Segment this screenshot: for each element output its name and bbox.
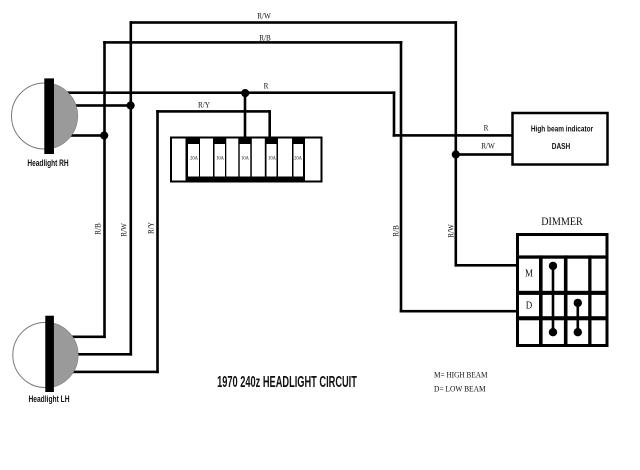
label R wire — [263, 81, 268, 90]
dimmer vertical divider 1 — [539, 255, 543, 344]
label R/B top wire — [259, 34, 271, 43]
fuse 20A slot 5 — [294, 144, 304, 177]
junction dot R/W vertical to DASH branch — [452, 150, 460, 158]
wire R branch to fusebox vertical — [244, 91, 247, 141]
label DASH — [551, 141, 570, 151]
fuse value 20A — [190, 156, 198, 161]
wire R/Y left vertical — [156, 110, 159, 373]
fuse 10A slot 4 — [267, 144, 277, 177]
label R/W at DASH — [481, 141, 495, 150]
label R/B left vertical — [93, 223, 102, 235]
fuse value 10A — [216, 156, 224, 161]
wire R/W to dimmer M horizontal — [455, 264, 518, 267]
box high beam indicator DASH — [513, 113, 608, 165]
wire R to DASH horizontal — [393, 134, 515, 137]
wire R vertical drop — [393, 91, 396, 136]
fuse value 20A — [294, 156, 302, 161]
fuse 10A slot 2 — [215, 144, 226, 177]
fuse slot tall 1 — [200, 139, 213, 177]
wire headlight RH lower horizontal — [60, 134, 106, 137]
wire R/W left vertical — [130, 21, 133, 355]
junction dot headlight RH lower to R/B vertical — [100, 131, 108, 139]
headlight RH lamp symbol — [12, 78, 78, 154]
wire R/Y vertical into fusebox — [268, 110, 271, 141]
wire headlight LH top horizontal — [61, 336, 106, 339]
legend D= LOW BEAM — [434, 385, 486, 394]
label R/W left vertical — [119, 223, 128, 237]
label D terminal — [526, 300, 533, 311]
fusebox body — [170, 137, 323, 183]
wire R/B left vertical — [103, 41, 106, 338]
dimmer divider below M row — [519, 291, 606, 295]
wire R/B to dimmer D horizontal — [400, 310, 518, 313]
wire R/B right vertical — [400, 41, 403, 312]
fuse 20A slot 1 — [188, 144, 199, 177]
dimmer contact bar M column — [549, 262, 557, 337]
label Headlight RH — [27, 158, 68, 168]
label High beam indicator — [531, 125, 593, 134]
label DIMMER — [542, 216, 584, 228]
fuse value 10A — [241, 156, 249, 161]
fuse slot tall 3 — [252, 139, 265, 177]
dimmer vertical divider 2 — [564, 255, 568, 344]
fuse slot tall 2 — [226, 139, 238, 177]
dimmer divider below D row — [519, 316, 606, 320]
dimmer switch box — [516, 233, 609, 347]
dimmer divider below header — [519, 255, 606, 258]
label R at DASH — [483, 124, 488, 133]
wire headlight RH middle horizontal — [60, 104, 132, 107]
dimmer vertical divider 3 — [588, 255, 591, 344]
wire R/W top horizontal — [130, 21, 458, 24]
junction dot headlight RH middle to R/W vertical — [127, 101, 135, 109]
wire R main horizontal from headlight RH — [60, 91, 395, 94]
fuse value 10A — [268, 156, 276, 161]
headlight LH lamp symbol — [13, 316, 78, 392]
label R/Y wire — [198, 100, 210, 109]
wire R/B top horizontal — [103, 41, 402, 44]
junction dot on R wire at fuse branch — [241, 89, 249, 97]
legend M= HIGH BEAM — [434, 370, 487, 379]
label R/W right vertical — [446, 224, 455, 238]
label R/B right vertical — [391, 226, 400, 238]
title 1970 240z HEADLIGHT CIRCUIT — [217, 374, 357, 392]
dimmer contact bar D column — [574, 299, 582, 337]
wire R/W branch to DASH horizontal — [455, 153, 514, 156]
fuse slot tall 4 — [278, 139, 292, 177]
wire headlight LH middle horizontal — [61, 353, 132, 356]
fuse 10A slot 3 — [240, 144, 251, 177]
wire headlight LH bottom horizontal — [61, 371, 159, 374]
wire R/W right vertical — [455, 21, 458, 266]
label Headlight LH — [28, 394, 69, 404]
label R/Y left vertical — [146, 221, 155, 233]
label R/W top wire — [257, 12, 271, 21]
label M terminal — [525, 269, 533, 280]
wire R/Y horizontal — [156, 110, 271, 113]
